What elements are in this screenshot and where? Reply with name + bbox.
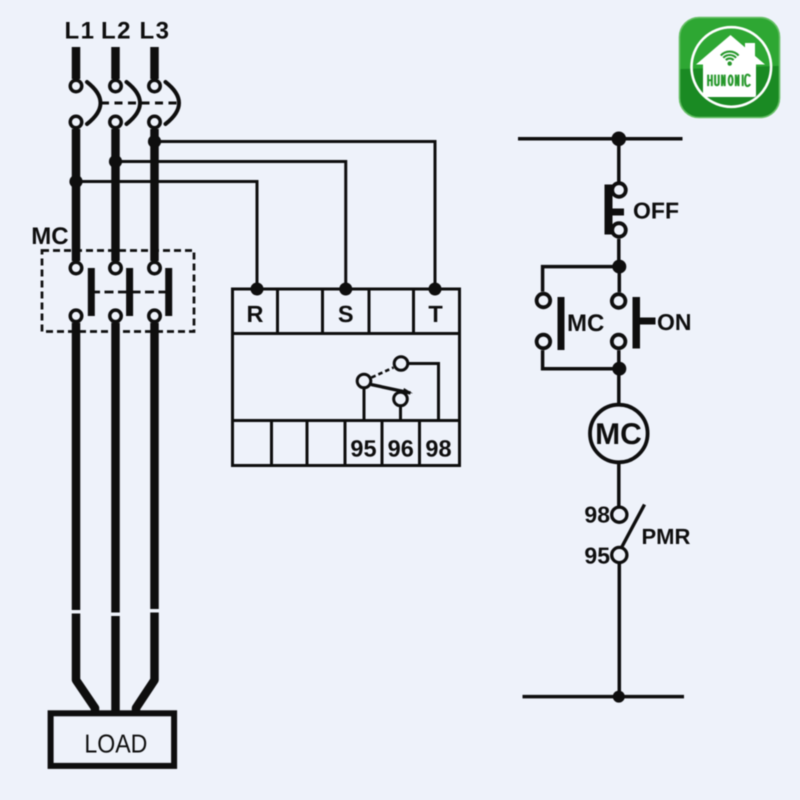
svg-text:95: 95 [584, 542, 610, 568]
svg-text:PMR: PMR [642, 524, 691, 549]
svg-text:98: 98 [584, 502, 610, 528]
svg-text:96: 96 [388, 436, 414, 462]
svg-text:L1: L1 [64, 18, 95, 45]
svg-text:MC: MC [567, 310, 604, 337]
svg-text:L2: L2 [101, 18, 132, 45]
svg-text:ON: ON [657, 309, 692, 335]
svg-text:95: 95 [350, 436, 376, 462]
svg-text:98: 98 [425, 436, 451, 462]
svg-text:R: R [247, 301, 264, 327]
svg-text:OFF: OFF [633, 198, 679, 224]
svg-text:LOAD: LOAD [84, 729, 147, 759]
svg-text:MC: MC [595, 418, 642, 451]
svg-text:MC: MC [31, 223, 68, 250]
svg-text:T: T [428, 301, 443, 327]
svg-text:S: S [338, 301, 354, 327]
svg-text:L3: L3 [139, 18, 170, 45]
